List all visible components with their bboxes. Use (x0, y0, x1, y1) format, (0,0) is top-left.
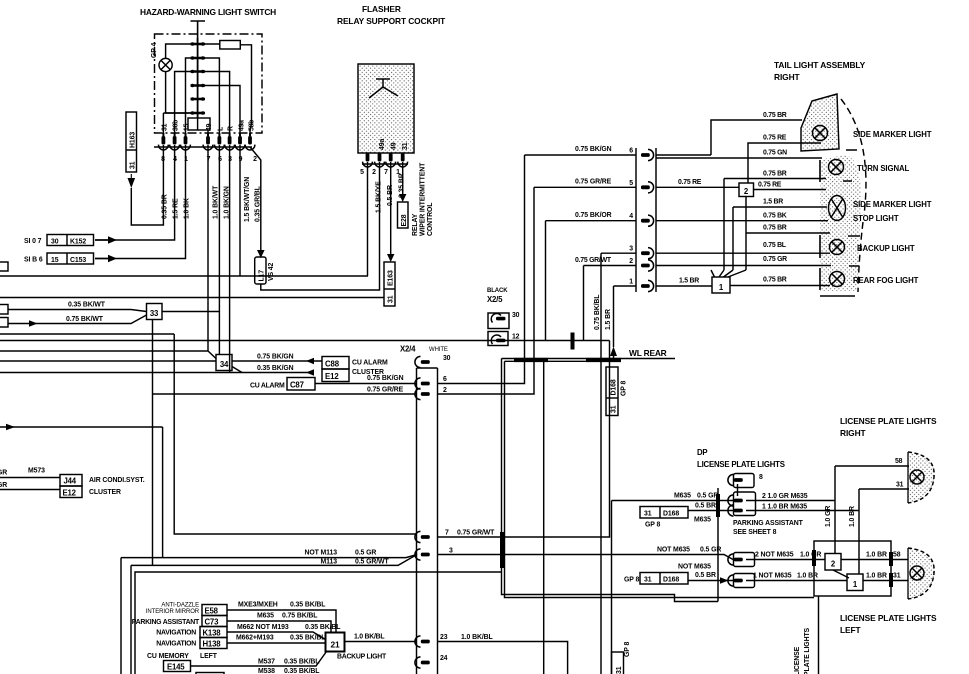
wire X2/5 pin12 line (0, 340, 610, 342)
svg-text:31: 31 (402, 142, 409, 150)
wire 0.5 BR to pin1 lower with arrow (688, 580, 733, 582)
lamp side marker / stop dual (829, 196, 846, 221)
wire 0.75 GR/RE to X2/4 pin2 (153, 393, 418, 395)
tail lamp housing arc band (820, 155, 861, 291)
svg-text:0.75 BL: 0.75 BL (763, 242, 786, 249)
wire M113 0.5 GR/WT (153, 555, 418, 566)
license boundary box (814, 541, 891, 596)
svg-text:PARKING ASSISTANT: PARKING ASSISTANT (132, 619, 200, 626)
wire to E12 cluster (0, 489, 60, 491)
wire H138 to splice 21 (227, 642, 326, 644)
svg-text:M635: M635 (257, 613, 274, 620)
svg-text:5: 5 (360, 169, 364, 176)
component box K138 navigation (200, 627, 227, 638)
X2/4 pin 30 (415, 356, 430, 367)
wire 0.75 RE lamp2 feed (748, 143, 821, 183)
svg-text:NAVIGATION: NAVIGATION (156, 630, 196, 637)
terminal labels (rotated) (162, 120, 256, 131)
license lamp left bulb (910, 566, 924, 580)
connector X2/4 white label (400, 345, 448, 354)
X2/4 pin 24 (415, 657, 430, 668)
svg-text:TAIL LIGHT ASSEMBLY: TAIL LIGHT ASSEMBLY (774, 60, 866, 70)
X2/4 pin 23 (415, 636, 430, 647)
svg-text:6: 6 (629, 148, 633, 155)
ground box H163 31 (126, 112, 137, 172)
flasher terminal labels (379, 139, 409, 150)
fuse row SI B6 / C153 (24, 257, 43, 264)
feed wires into tail connector (525, 154, 637, 156)
svg-text:0.5 GR: 0.5 GR (697, 493, 718, 500)
wire M573 to J44 (0, 477, 60, 479)
svg-text:GP 8: GP 8 (621, 381, 628, 396)
wire pin5 0.75 RE into splice 2 (656, 186, 739, 188)
svg-text:1.5 BK/YE: 1.5 BK/YE (376, 181, 383, 213)
note parking assistant (733, 520, 804, 536)
connector X2/4 housing (417, 368, 438, 674)
svg-text:M113: M113 (321, 559, 338, 566)
splice box 1 left (847, 574, 863, 591)
switch S1 enclosure (dash-dot) (155, 34, 263, 133)
svg-text:LICENSE: LICENSE (794, 646, 801, 674)
svg-text:31: 31 (644, 577, 652, 584)
svg-text:49: 49 (391, 142, 398, 150)
wire colour labels (rotated) below switch (162, 177, 262, 222)
svg-text:H163: H163 (130, 132, 137, 148)
svg-text:0.75 RE: 0.75 RE (678, 179, 702, 186)
svg-text:31: 31 (611, 405, 618, 413)
svg-text:2: 2 (372, 169, 376, 176)
svg-text:X2/5: X2/5 (487, 295, 503, 304)
svg-text:M635: M635 (694, 517, 711, 524)
wire pin3 down (229, 145, 231, 372)
svg-text:FLASHER: FLASHER (362, 4, 401, 14)
license lamp right housing (908, 452, 934, 503)
flasher pin5 wire down to y276 (367, 162, 369, 276)
X2/5 pin 12 (488, 332, 520, 346)
svg-text:7: 7 (445, 530, 449, 537)
svg-text:0.5 BR: 0.5 BR (695, 503, 716, 510)
wire 0.5 BR M635 (688, 510, 733, 512)
license lamp left housing (908, 548, 934, 599)
harness vertical mid (543, 361, 545, 674)
lamp turn signal (829, 160, 844, 175)
svg-text:0.5 GR: 0.5 GR (700, 547, 721, 554)
edge connector stub box left (0, 262, 8, 271)
title flasher (337, 4, 446, 26)
flasher pin1 wire to E28 (402, 162, 404, 194)
svg-text:1.0 BK/BL: 1.0 BK/BL (354, 634, 384, 641)
svg-text:NOT M635: NOT M635 (678, 564, 711, 571)
svg-text:GP 8: GP 8 (624, 642, 631, 657)
lamp rear fog light (830, 272, 845, 287)
svg-text:M573: M573 (28, 468, 45, 475)
riser 1.0 BR (858, 489, 860, 574)
svg-text:RIGHT: RIGHT (774, 72, 801, 82)
svg-text:1: 1 (629, 279, 633, 286)
svg-text:1.5 BR: 1.5 BR (763, 199, 783, 206)
svg-text:0.75 BR: 0.75 BR (763, 225, 787, 232)
rotated label license plate lights (794, 627, 811, 674)
wire license harness off-sheet (818, 596, 820, 674)
svg-text:5: 5 (629, 180, 633, 187)
svg-text:0.75 BK/GN: 0.75 BK/GN (367, 375, 404, 382)
relay symbol (369, 79, 398, 98)
lamp wiring (166, 44, 193, 113)
svg-text:0.5 GR: 0.5 GR (355, 550, 376, 557)
wire 0.75 BK pin4 to stop (656, 220, 828, 222)
svg-text:REAR FOG LIGHT: REAR FOG LIGHT (853, 276, 919, 285)
wire 1.0 BR to left lamp 58 (841, 559, 909, 561)
svg-text:LICENSE PLATE LIGHTS: LICENSE PLATE LIGHTS (697, 460, 785, 469)
svg-text:34: 34 (220, 360, 229, 369)
svg-text:M635: M635 (674, 493, 691, 500)
wire 58 right (835, 465, 909, 467)
wire splice21 to X2/4 pin23 (345, 641, 418, 643)
relay E28 wiper intermittent control (398, 202, 409, 228)
svg-text:31: 31 (644, 511, 652, 518)
wire splice33 to switch pin6 line (162, 311, 219, 313)
svg-text:0.75 BK/WT: 0.75 BK/WT (66, 316, 104, 323)
svg-text:SEE SHEET 8: SEE SHEET 8 (733, 529, 777, 536)
wire 0.75 BL pin3 to backup (656, 252, 830, 254)
coupler L17 (255, 257, 266, 284)
svg-text:0.5 GR/WT: 0.5 GR/WT (355, 559, 389, 566)
svg-text:INTERIOR MIRROR: INTERIOR MIRROR (146, 609, 200, 615)
resistor R in switch (220, 41, 241, 50)
svg-text:MXE3/MXEH: MXE3/MXEH (238, 602, 278, 609)
svg-text:1.0 BK/WT: 1.0 BK/WT (213, 185, 220, 219)
svg-text:0.75 BR: 0.75 BR (763, 277, 787, 284)
svg-text:X2/4: X2/4 (400, 345, 416, 354)
wire tail pin1 1.5 BR drop to WL REAR (613, 286, 615, 358)
wires license pins to lamps (746, 500, 835, 502)
svg-text:2 1.0 GR M635: 2 1.0 GR M635 (762, 493, 808, 500)
wire 0.75 RE splice2 to lamp3 (754, 189, 827, 191)
svg-text:SI 0 7: SI 0 7 (24, 238, 42, 245)
wire X2/4 pin2 to tail pin5 riser (438, 187, 535, 394)
partial box below (196, 673, 224, 674)
svg-text:E145: E145 (167, 663, 185, 672)
svg-text:L17: L17 (259, 270, 266, 282)
svg-text:58b: 58b (249, 120, 256, 131)
ground arrow H163 (130, 174, 132, 182)
harness corner wires to WL REAR bus (502, 359, 676, 362)
svg-text:CLUSTER: CLUSTER (89, 489, 121, 496)
svg-text:24: 24 (440, 655, 448, 662)
tick on harness (500, 532, 504, 568)
svg-text:0.75 GR/RE: 0.75 GR/RE (575, 179, 612, 186)
title license plate lights right (840, 416, 937, 438)
svg-text:CONTROL: CONTROL (427, 203, 434, 236)
svg-text:1.0 GR: 1.0 GR (825, 506, 832, 527)
switch contact ladder (197, 38, 199, 118)
svg-text:49a: 49a (239, 120, 246, 131)
svg-text:0.75 BK/BL: 0.75 BK/BL (282, 613, 317, 620)
ground box 31 D168 upper (640, 507, 688, 519)
svg-text:0.35 BK/BL: 0.35 BK/BL (290, 635, 325, 642)
X2/4 pin 7 (415, 531, 430, 542)
svg-text:0.75 BK: 0.75 BK (763, 213, 787, 220)
svg-text:0.75 BR: 0.75 BR (763, 171, 787, 178)
component box E58 anti-dazzle mirror (202, 605, 227, 616)
svg-text:M538: M538 (258, 668, 275, 674)
svg-text:31: 31 (896, 482, 904, 489)
wire C73 to splice 21 (227, 621, 331, 633)
wire X2/4 pin6 to tail pin6 riser (438, 155, 525, 384)
svg-text:BACKUP LIGHT: BACKUP LIGHT (337, 654, 387, 661)
svg-text:0.35 BK/BL: 0.35 BK/BL (290, 602, 325, 609)
svg-text:4: 4 (629, 213, 633, 220)
splice box 2 (739, 183, 754, 197)
connector box C87 (287, 378, 315, 391)
switch actuator T-bar (191, 21, 206, 44)
wire with arrow from left (0, 427, 163, 558)
svg-text:7: 7 (384, 169, 388, 176)
svg-text:K152: K152 (70, 239, 86, 246)
svg-text:3: 3 (449, 548, 453, 555)
svg-text:0.35 BR: 0.35 BR (162, 194, 169, 219)
svg-text:0.75 BK/BL: 0.75 BK/BL (594, 295, 601, 330)
wire 2 NOT M635 1.0 GR to splice 2 (746, 559, 825, 561)
svg-text:1.5 BR: 1.5 BR (679, 278, 699, 285)
stub wires to bottom edge (121, 558, 163, 674)
svg-text:R: R (228, 126, 235, 131)
svg-text:1.0 BK/BL: 1.0 BK/BL (461, 634, 493, 641)
svg-text:PLATE LIGHTS: PLATE LIGHTS (804, 627, 811, 674)
wire 0.75 BR lamp2 return (724, 179, 826, 271)
title tail light assembly right (774, 60, 866, 82)
ground funnel into splice 1 (711, 270, 746, 277)
svg-text:AIR CONDI.SYST.: AIR CONDI.SYST. (89, 477, 145, 484)
svg-text:D168: D168 (611, 379, 618, 395)
svg-text:1 1.0 BR M635: 1 1.0 BR M635 (762, 504, 807, 511)
svg-text:VS 42: VS 42 (268, 262, 275, 281)
svg-text:NOT M113: NOT M113 (304, 550, 337, 557)
wire X2/5 pin30 line (0, 333, 174, 335)
tail pins 6,5,4,3,2,1 (641, 149, 654, 291)
svg-text:SI B 6: SI B 6 (24, 257, 43, 264)
svg-text:0.75 RE: 0.75 RE (763, 135, 787, 142)
wire splice33 down (152, 320, 154, 566)
svg-text:0.35 BK/BL: 0.35 BK/BL (284, 659, 319, 666)
svg-text:2: 2 (253, 156, 257, 163)
svg-text:LEFT: LEFT (200, 653, 218, 660)
svg-text:2: 2 (629, 258, 633, 265)
svg-text:GP 8: GP 8 (624, 577, 639, 584)
svg-text:J44: J44 (64, 477, 77, 486)
svg-text:E12: E12 (63, 489, 77, 498)
wire M538 partial (258, 668, 319, 674)
flasher relay K box (stippled) (358, 64, 414, 153)
svg-text:GR: GR (0, 470, 7, 477)
splice box 21 (326, 633, 345, 652)
svg-text:58: 58 (895, 458, 903, 465)
wire GR/WT riser to X2/4 pin7 (438, 341, 610, 538)
bus WL REAR (514, 358, 621, 362)
svg-text:1.5 BK/WT/GN: 1.5 BK/WT/GN (244, 177, 251, 222)
svg-text:0.75 BK/GN: 0.75 BK/GN (575, 146, 612, 153)
svg-text:0.75 GR/WT: 0.75 GR/WT (575, 257, 612, 264)
svg-text:1.0 BR: 1.0 BR (866, 552, 887, 559)
riser 1.0 GR (834, 466, 836, 554)
wire 1.5 BR splice1 to pin1 (656, 285, 712, 287)
wire pin4 1.5 RE to K152 (95, 145, 175, 240)
flasher pin numbers (360, 169, 400, 176)
svg-text:0.75 GR: 0.75 GR (763, 256, 787, 263)
wire 1.0 BR to left lamp 31 (863, 580, 909, 582)
svg-text:GP 8: GP 8 (645, 522, 660, 529)
svg-text:33: 33 (150, 309, 159, 318)
svg-text:15: 15 (184, 123, 191, 131)
svg-text:0.75 GR/WT: 0.75 GR/WT (457, 530, 495, 537)
svg-text:BLACK: BLACK (487, 288, 508, 294)
splice box 1 (712, 277, 730, 293)
svg-text:E12: E12 (325, 372, 339, 381)
svg-text:1.0 BR: 1.0 BR (797, 573, 818, 580)
svg-text:CU ALARM: CU ALARM (352, 360, 388, 367)
svg-text:STOP LIGHT: STOP LIGHT (853, 214, 899, 223)
wire tail pin3 0.75 BK/BL long drop (600, 253, 602, 674)
svg-text:1.5 BR: 1.5 BR (605, 309, 612, 330)
wire 49a bus y276 (0, 275, 368, 277)
svg-text:1.0 BR: 1.0 BR (866, 573, 887, 580)
wire NOT M635 0.5 GR lower (438, 555, 734, 560)
svg-text:NOT M635: NOT M635 (657, 547, 690, 554)
svg-text:WIPER INTERMITTENT: WIPER INTERMITTENT (420, 162, 427, 236)
svg-text:C87: C87 (290, 381, 304, 390)
svg-text:K138: K138 (203, 629, 222, 638)
svg-text:M662+M193: M662+M193 (236, 635, 274, 642)
svg-text:SIDE MARKER LIGHT: SIDE MARKER LIGHT (853, 200, 932, 209)
ground box D168 31 on bus (606, 367, 618, 416)
junction tick (571, 333, 575, 350)
svg-text:30: 30 (443, 355, 451, 362)
wire 1.5 BR lamp3 (733, 207, 827, 270)
wire 0.75 GR pin2 to fog (656, 265, 831, 267)
svg-text:49: 49 (206, 123, 213, 131)
wire 0.35 BK/WT into splice 33 (8, 310, 147, 312)
svg-text:0.35 BK/GN: 0.35 BK/GN (257, 365, 294, 372)
switch connector pins row (154, 133, 255, 150)
svg-text:58: 58 (893, 552, 901, 559)
svg-text:D168: D168 (663, 511, 679, 518)
flasher wire labels rotated (376, 173, 406, 213)
svg-text:BACKUP LIGHT: BACKUP LIGHT (857, 244, 915, 253)
svg-text:RELAY SUPPORT COCKPIT: RELAY SUPPORT COCKPIT (337, 16, 446, 26)
svg-text:2: 2 (443, 387, 447, 394)
indicator lamp in switch (159, 58, 172, 71)
svg-text:0.75 GR/RE: 0.75 GR/RE (367, 387, 404, 394)
tail lamp housing pentagon (801, 94, 839, 151)
module boundary box (135, 572, 502, 674)
svg-text:LICENSE PLATE LIGHTS: LICENSE PLATE LIGHTS (840, 416, 937, 426)
connector box J44 (60, 475, 82, 487)
svg-text:1.0 BK: 1.0 BK (184, 198, 191, 219)
connector X2/5 label (487, 288, 508, 304)
wire E58 to splice 21 (227, 610, 336, 633)
wire L17 bottom to flasher pin2 (261, 162, 380, 290)
ground stub box 31 bottom (611, 501, 613, 674)
wire 0.75 GR/WT from tail pin2 (584, 266, 637, 341)
wire 49a line lower (0, 372, 308, 374)
title dp license plate lights (697, 448, 785, 469)
license pin 1 lower (734, 574, 755, 588)
wire pin1 riser (614, 285, 637, 287)
svg-text:NAVIGATION: NAVIGATION (156, 641, 196, 648)
svg-text:PARKING ASSISTANT: PARKING ASSISTANT (733, 520, 804, 527)
ground box 31 D168 lower (640, 573, 688, 585)
wire 31 right (859, 488, 909, 490)
svg-text:DP: DP (697, 448, 707, 457)
wire switch pin7 junction into splice 34 (0, 351, 216, 359)
flasher pins (362, 153, 408, 167)
svg-text:M537: M537 (258, 659, 275, 666)
svg-text:1.0 BR: 1.0 BR (849, 506, 856, 527)
svg-text:0.35 BK/WT: 0.35 BK/WT (68, 302, 106, 309)
wire pin6 down (218, 145, 220, 355)
X2/4 pin 6 (415, 378, 430, 389)
lamp cell separators (820, 150, 860, 296)
svg-text:TURN SIGNAL: TURN SIGNAL (857, 164, 910, 173)
X2/5 pin 30 (488, 312, 520, 329)
svg-text:WL REAR: WL REAR (629, 348, 667, 358)
internal wires to terminals (175, 58, 193, 133)
svg-text:1.5 RE: 1.5 RE (173, 198, 180, 219)
wire pin7 down (207, 145, 209, 351)
svg-text:0.35 BK/BL: 0.35 BK/BL (305, 624, 340, 631)
svg-text:0.35 BK/BL: 0.35 BK/BL (284, 668, 319, 674)
wire 0.75 BR lamp1 (656, 120, 802, 155)
svg-text:3: 3 (629, 246, 633, 253)
svg-text:D168: D168 (663, 577, 679, 584)
wire ground to E163 (0, 297, 384, 299)
svg-text:23: 23 (440, 634, 448, 641)
license pins 2/1 upper housing (734, 492, 756, 516)
svg-text:31: 31 (130, 161, 137, 169)
flasher pin7 wire to ground E163 (390, 162, 392, 254)
svg-text:31: 31 (616, 666, 623, 674)
svg-text:E163: E163 (388, 270, 395, 286)
svg-text:WHITE: WHITE (429, 347, 448, 353)
svg-text:0.75 BR: 0.75 BR (763, 112, 787, 119)
svg-text:SIDE MARKER LIGHT: SIDE MARKER LIGHT (853, 130, 932, 139)
X2/4 pin 2 (415, 388, 430, 399)
arrow into L17 (257, 250, 265, 258)
splice box 34 (216, 355, 232, 371)
splice box 2 left (825, 554, 841, 571)
svg-text:30: 30 (512, 312, 520, 319)
wire NOT M113 0.5 GR (163, 555, 417, 558)
svg-text:RELAY: RELAY (412, 213, 419, 236)
harness vertical at license (717, 488, 719, 602)
svg-text:15: 15 (51, 257, 59, 264)
svg-text:C73: C73 (205, 618, 220, 627)
svg-text:21: 21 (331, 640, 340, 650)
wire C87 0.75 BK/GN to X2/4 pin6 (315, 383, 417, 385)
wire tail pin4 riser 0.75 BK/OR (545, 221, 547, 341)
svg-text:30: 30 (51, 239, 59, 246)
wire 0.75 BK/WT into splice 33 (8, 315, 147, 324)
svg-text:E58: E58 (205, 607, 219, 616)
wire 0.75 BK/GN to C88 (232, 360, 322, 362)
wire pin8 0.35 BR to ground H163 (131, 145, 163, 225)
svg-text:31: 31 (162, 123, 169, 131)
svg-text:C88: C88 (325, 360, 340, 369)
wire riser to module (174, 334, 416, 534)
svg-text:31: 31 (388, 295, 395, 303)
connector box E12 aircond (60, 486, 82, 498)
svg-text:RIGHT: RIGHT (840, 428, 867, 438)
